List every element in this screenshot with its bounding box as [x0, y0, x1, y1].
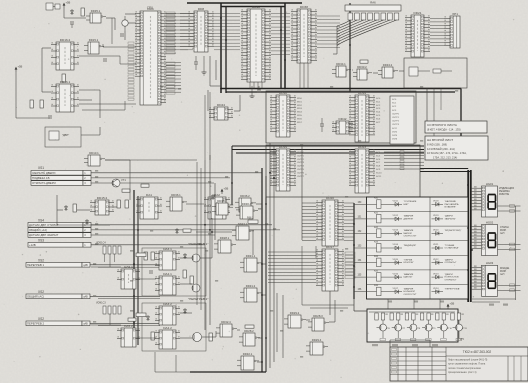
svg-text:+5B: +5B	[450, 302, 455, 306]
svg-text:СЧТР2: СЧТР2	[392, 121, 400, 123]
bus feed into right vertical	[420, 168, 468, 170]
diode VD9	[183, 253, 186, 259]
opto VT circle 2	[192, 284, 200, 292]
svg-text:ХS1: ХS1	[38, 166, 44, 170]
svg-text:SC/2: SC/2	[392, 128, 398, 130]
svg-text:Лифт пассажирский (серия 0401-: Лифт пассажирский (серия 0401-П)	[448, 359, 488, 362]
svg-text:DD20: DD20	[326, 196, 334, 200]
wires DD11 bottom stubs	[250, 82, 262, 89]
svg-text:1КЛ4: 1КЛ4	[392, 135, 398, 137]
svg-text:1КЛ2: 1КЛ2	[392, 131, 398, 133]
resistor R26	[183, 229, 191, 232]
crystal oscillator ZQ1	[122, 16, 128, 31]
LED VD22	[432, 259, 444, 265]
svg-text:"ДВЕРИ: "ДВЕРИ	[445, 274, 454, 276]
bus vertical mid bottom pair	[261, 168, 263, 372]
flip-flop DD16.1	[51, 80, 79, 112]
wire dd20 feed vertical	[301, 146, 303, 240]
LED VD23	[432, 273, 444, 279]
svg-text:DD19: DD19	[358, 91, 366, 95]
wire dd17 area to matrix bus	[302, 304, 354, 306]
connector XS1 row 2	[31, 176, 91, 181]
array resistor R36	[451, 313, 464, 320]
svg-text:DA4.2: DA4.2	[163, 326, 172, 330]
svg-text:+12В: +12В	[29, 243, 36, 247]
indicator matrix row line 1	[367, 211, 469, 213]
label for VD19	[445, 216, 457, 221]
array transistor VT10	[437, 320, 452, 338]
svg-text:DD38: DD38	[300, 5, 308, 9]
wire dd15 to cpu	[103, 46, 136, 48]
resistor R4	[141, 184, 149, 187]
svg-text:WD1: WD1	[297, 101, 303, 103]
bus vertical x354 to matrix	[353, 203, 355, 299]
indicator matrix column divider	[429, 197, 431, 299]
svg-text:8 IND (158...168): 8 IND (158...168)	[427, 143, 447, 147]
svg-text:+5B: +5B	[66, 1, 71, 5]
DD10 output labels WD0-WD7	[297, 98, 303, 124]
svg-text:МАЛОЙ: МАЛОЙ	[404, 232, 412, 235]
optocoupler DA1	[136, 193, 162, 219]
CPU left tag boxes	[128, 42, 134, 100]
svg-text:DD23: DD23	[358, 145, 366, 149]
svg-text:DD21: DD21	[414, 11, 422, 15]
svg-text:пульт управления лифтом. Плата: пульт управления лифтом. Плата	[448, 363, 486, 366]
svg-text:DA4.1: DA4.1	[163, 272, 172, 276]
DD17 right tag boxes	[345, 252, 355, 278]
IC DD14	[270, 145, 296, 191]
IC DD20	[316, 196, 344, 246]
CPU right label boxes	[166, 14, 176, 54]
svg-text:"УСИЛЕНИЕ: "УСИЛЕНИЕ	[404, 201, 417, 203]
capacitor C2	[120, 34, 124, 36]
svg-text:DD17: DD17	[326, 245, 334, 249]
svg-text:DA5.1: DA5.1	[124, 265, 133, 269]
svg-text:ПЕРЕГРЕВ 2: ПЕРЕГРЕВ 2	[27, 322, 44, 326]
array resistor R34	[420, 313, 433, 320]
label for VD14	[404, 245, 417, 247]
DD19 output labels	[376, 98, 381, 124]
gate DD38.2	[212, 199, 233, 215]
array top rail	[369, 311, 455, 313]
gate DD28.3	[308, 314, 329, 331]
svg-text:ДВЕРЕЙ": ДВЕРЕЙ"	[404, 217, 414, 220]
gate DD35.1	[86, 9, 106, 23]
capacitor C16	[104, 58, 106, 62]
zone DVP box	[45, 127, 81, 147]
capacitor C1	[70, 22, 74, 28]
wire 7seg bottom horizontals	[472, 298, 516, 300]
row 4 feed resistor R43	[354, 241, 381, 252]
LED VD16	[381, 273, 402, 279]
wire dd17 to bottom gates	[329, 291, 331, 315]
row 7 feed resistor R46	[354, 285, 381, 296]
diode VD3	[70, 9, 73, 15]
label HG2	[500, 226, 509, 235]
bus wire vertical pair right of DD11	[280, 7, 282, 89]
LED VD21	[432, 244, 444, 250]
indicator matrix box	[367, 197, 469, 299]
svg-text:DD28.1: DD28.1	[220, 236, 230, 240]
array resistor R35	[436, 313, 449, 320]
svg-text:1КЛ6: 1КЛ6	[392, 139, 398, 141]
gate DD31.1	[240, 254, 262, 272]
svg-text:DA3.2: DA3.2	[163, 302, 172, 306]
wire dd8 lower area	[209, 56, 211, 86]
wire array top left	[354, 310, 367, 312]
svg-text:"ПЕРЕГРЕВ 2": "ПЕРЕГРЕВ 2"	[188, 297, 208, 301]
resistor row under RA6	[348, 13, 399, 20]
wire below dd17 verticals	[276, 293, 278, 352]
note box from sheet 2	[425, 121, 487, 133]
peregrev1 section outline	[142, 248, 206, 296]
wires DD23 to sheet2 box	[384, 151, 424, 170]
svg-text:XP1: XP1	[452, 12, 458, 16]
svg-text:DD11: DD11	[252, 5, 260, 9]
svg-text:№П: №П	[500, 232, 505, 235]
svg-text:VD19: VD19	[433, 215, 439, 217]
array resistor R32	[390, 313, 403, 320]
optocoupler VT circle 1	[192, 254, 200, 262]
svg-text:VT10: VT10	[447, 328, 453, 330]
label for VD16	[404, 273, 414, 279]
wire cpu to dd8 bus	[166, 14, 193, 50]
LED VD18	[432, 201, 444, 207]
wire bottom gates	[237, 329, 240, 331]
svg-text:ПОДВЕКА 1В: ПОДВЕКА 1В	[32, 176, 50, 180]
svg-text:DD15.1: DD15.1	[89, 38, 99, 42]
row 6 feed resistor R45	[354, 271, 381, 282]
array +5V	[447, 302, 455, 310]
gate DD13.1	[84, 151, 105, 166]
comparator DA3.1	[155, 247, 180, 270]
array bottom tag 3	[410, 339, 416, 341]
svg-text:СЧТР2: СЧТР2	[297, 159, 305, 161]
svg-text:VD24: VD24	[433, 288, 439, 290]
svg-text:"АВАРИЯ: "АВАРИЯ	[404, 288, 414, 291]
row 5 feed resistor R44	[354, 256, 381, 267]
svg-text:VD20: VD20	[433, 230, 439, 232]
label for VD15	[404, 259, 414, 264]
svg-text:ПЕРЕГРЕВ 1: ПЕРЕГРЕВ 1	[27, 263, 44, 267]
label for VD20	[445, 229, 462, 232]
label for VD23	[445, 274, 460, 281]
svg-text:DD28.2: DD28.2	[244, 329, 254, 333]
svg-text:DD10: DD10	[279, 91, 287, 95]
svg-text:принципиальная. (лист 1): принципиальная. (лист 1)	[448, 371, 477, 374]
wire fan vertical	[336, 26, 338, 54]
svg-text:ШУНТОВ": ШУНТОВ"	[404, 262, 414, 264]
svg-text:В КАБИНЕ": В КАБИНЕ"	[445, 206, 457, 209]
svg-text:DD32.4: DD32.4	[221, 320, 231, 324]
bus wires to sheet-2 box	[232, 145, 424, 147]
label HG3	[500, 267, 510, 276]
array transistor VT7	[392, 320, 406, 338]
7seg module HG3	[471, 261, 521, 296]
svg-text:"АВАРИЯ: "АВАРИЯ	[404, 229, 414, 232]
7seg bottom tags	[489, 304, 508, 306]
svg-text:СЧТР1: СЧТР1	[392, 117, 400, 119]
wire left vertical	[15, 72, 17, 118]
wire opto row	[186, 203, 204, 205]
comparator DA4.1	[155, 272, 180, 295]
LED VD19	[432, 215, 444, 221]
bus wire top horizontal 2	[221, 6, 285, 8]
box around gates group	[404, 58, 467, 88]
resistor R25	[125, 200, 128, 208]
resistor R39	[190, 276, 193, 284]
array bottom tag 2	[395, 339, 401, 341]
svg-text:СЧТР3: СЧТР3	[297, 162, 305, 164]
gate DD32.4	[216, 320, 237, 337]
wires XS3 right	[91, 244, 205, 246]
svg-text:"ОБРЫВ: "ОБРЫВ	[404, 259, 413, 261]
array resistor R31	[375, 313, 388, 320]
resistor network RA6	[345, 1, 401, 11]
svg-text:DD29.4: DD29.4	[312, 338, 322, 342]
svg-text:СКОРОСТИ": СКОРОСТИ"	[404, 236, 417, 238]
DD14 output labels	[297, 152, 305, 178]
title block table	[390, 347, 528, 381]
svg-text:СЧТР6: СЧТР6	[297, 172, 305, 174]
diode VD40	[85, 219, 88, 225]
svg-text:VD12: VD12	[393, 215, 399, 217]
title block upper tab	[390, 340, 430, 347]
row 3 feed resistor R42	[354, 227, 381, 238]
svg-text:НВР": НВР"	[404, 204, 409, 206]
array bottom tag 5	[441, 339, 447, 341]
wire zone dvp	[81, 134, 100, 136]
IC DD21	[405, 11, 430, 57]
resistor R38	[183, 270, 186, 278]
LED VD15	[381, 259, 402, 265]
CPU lower right hatch	[166, 63, 181, 93]
wire peregrev1	[180, 257, 192, 259]
crystal G1 top corner	[46, 3, 60, 10]
diode VD8	[175, 228, 178, 234]
svg-text:НА ВТОРОЙ ЛИСТ: НА ВТОРОЙ ЛИСТ	[427, 138, 453, 142]
gate DD37.1	[232, 222, 254, 240]
IC DD11 ROM	[241, 5, 271, 82]
opto VT circle 3	[193, 333, 202, 342]
wire filter cluster 2	[91, 324, 121, 326]
svg-text:175А, 212, 213, 214): 175А, 212, 213, 214)	[433, 155, 457, 159]
resistor R28.4	[245, 325, 254, 328]
svg-text:WD5: WD5	[297, 115, 303, 117]
transistor VT1	[112, 178, 126, 187]
svg-text:DD34.1: DD34.1	[336, 62, 346, 66]
svg-text:DD16.2: DD16.2	[60, 38, 71, 42]
IC DD19	[349, 91, 375, 142]
svg-text:ШАХТЫ": ШАХТЫ"	[404, 276, 413, 279]
svg-text:ОБЩИЙ (AC): ОБЩИЙ (AC)	[27, 295, 44, 299]
svg-text:ПОЛНОСТЬЮ: ПОЛНОСТЬЮ	[445, 277, 460, 279]
wire analog area	[57, 209, 63, 211]
svg-text:"АВАРИЯ: "АВАРИЯ	[404, 273, 414, 276]
svg-text:DD14: DD14	[279, 145, 287, 149]
svg-text:DA5.2: DA5.2	[124, 324, 133, 328]
wires XS4 to right	[91, 224, 272, 226]
label for VD22	[445, 259, 457, 264]
connector XS2a row	[26, 263, 90, 268]
svg-text:VD16: VD16	[393, 273, 399, 275]
wires XS1 to right	[91, 172, 262, 174]
svg-text:DD33.2: DD33.2	[357, 65, 367, 69]
label for VD17	[404, 288, 417, 296]
svg-text:+5B: +5B	[224, 187, 229, 191]
resistor R30	[360, 60, 368, 63]
resistor R3	[81, 8, 84, 16]
wire dd20 dd17 right hatch	[344, 203, 354, 240]
wire filter cluster 1	[91, 266, 121, 268]
svg-text:DD32.1: DD32.1	[243, 352, 253, 356]
svg-text:VD11: VD11	[393, 201, 399, 203]
matrix bottom tags	[388, 301, 444, 303]
gate DD29.2	[284, 311, 306, 328]
wire XS2a	[90, 264, 160, 266]
wires gates box to notes	[426, 89, 428, 122]
svg-text:RA6: RA6	[370, 1, 376, 5]
group box DD14 DD23	[266, 145, 420, 197]
array bottom tag 6	[456, 339, 462, 341]
ground under DD11	[250, 86, 255, 98]
wire XS2b	[90, 295, 160, 297]
bus wire vertical x350	[349, 3, 351, 92]
array resistor R33	[405, 313, 418, 320]
svg-text:ОБЩИЙ (+12): ОБЩИЙ (+12)	[29, 228, 47, 232]
svg-text:ОСТАНОВКА": ОСТАНОВКА"	[445, 247, 459, 250]
svg-text:VD23: VD23	[433, 273, 439, 275]
svg-text:VD18: VD18	[433, 201, 439, 203]
bus wire horizontal mid 2	[226, 91, 455, 93]
bus wire vertical right x461	[427, 89, 461, 144]
svg-text:ТЮ2 и 487.263-002: ТЮ2 и 487.263-002	[463, 350, 492, 354]
IC DD38 RAM	[291, 5, 317, 63]
resistor R200	[209, 333, 212, 341]
bus wire bottom from gates	[231, 146, 233, 205]
capacitor C7 under DD11	[257, 86, 261, 92]
capacitor C9	[320, 118, 324, 132]
connector XS4 row 2	[28, 228, 91, 233]
tiny reference tags	[93, 86, 458, 358]
wire verticals from dd8 region down	[204, 95, 206, 160]
gate DD36.2	[235, 194, 256, 212]
wire fan from resistor row	[337, 20, 397, 46]
svg-text:HG03: HG03	[486, 261, 494, 265]
label for VD18	[445, 200, 459, 208]
LED VD24	[432, 288, 444, 294]
svg-text:DD36.1: DD36.1	[171, 193, 181, 197]
svg-text:СЧТР7: СЧТР7	[297, 176, 305, 178]
diode VD4	[64, 205, 67, 211]
svg-text:+5B: +5B	[18, 65, 23, 69]
small IC DD42 below DD38	[332, 117, 353, 134]
label for VD24	[445, 288, 461, 291]
svg-text:ОТКРЫТЬ ДВЕРИ: ОТКРЫТЬ ДВЕРИ	[32, 181, 56, 185]
IC DD10	[270, 91, 296, 137]
resistor R7	[62, 74, 65, 82]
svg-text:DD34.2: DD34.2	[383, 63, 393, 67]
resistor R5	[73, 204, 76, 212]
wire dd16 to cpu runs	[79, 103, 136, 105]
svg-text:HG02: HG02	[486, 220, 494, 224]
optocoupler DA5.2	[117, 324, 140, 347]
IC DD44	[209, 103, 233, 120]
svg-text:"ВР(ЗАГРУЗКИ)": "ВР(ЗАГРУЗКИ)"	[445, 229, 462, 232]
bus wire top horizontal	[187, 2, 302, 4]
CPU DD4	[135, 7, 166, 105]
input filter cluster VD90 C3	[96, 302, 121, 315]
comparator DA4.2	[155, 326, 180, 349]
svg-text:"ДВП": "ДВП"	[62, 133, 69, 137]
flip-flop DD16.2	[51, 38, 79, 70]
svg-text:VT11: VT11	[462, 328, 468, 330]
svg-text:DD38.2: DD38.2	[217, 199, 227, 203]
optocoupler DA2	[204, 193, 230, 219]
gate DD33.2	[353, 65, 372, 80]
bus wire right double vertical	[467, 170, 469, 302]
connector XS1 row 3	[31, 181, 91, 186]
svg-text:R68.1: R68.1	[247, 217, 254, 220]
svg-text:DD37.1: DD37.1	[238, 222, 248, 226]
svg-text:WD2: WD2	[297, 105, 303, 107]
svg-text:WD0: WD0	[297, 98, 303, 100]
gate DD30.4	[236, 202, 258, 219]
svg-text:"АВАРИЯ: "АВАРИЯ	[404, 215, 414, 218]
svg-text:№П: №П	[500, 273, 505, 276]
connector XS2b row	[26, 294, 90, 299]
svg-text:ц4В: ц4В	[83, 296, 88, 299]
gate DD28.2	[239, 329, 260, 346]
diode VD40b	[211, 194, 214, 200]
LED VD20	[432, 230, 444, 236]
wire power-on	[63, 8, 65, 18]
label for VD11	[404, 201, 417, 206]
LED VD17	[381, 288, 402, 294]
wire dd16 join	[42, 47, 51, 49]
wire dd16.1 outputs	[79, 89, 100, 91]
wire extra verticals near x200	[196, 162, 198, 305]
array transistor VT9	[422, 320, 436, 338]
group box DD10 DD19	[266, 91, 416, 143]
wire XS2c	[90, 322, 160, 324]
wire misc mid	[129, 172, 131, 200]
wire peregrev2	[180, 312, 192, 314]
wire dd31 col	[252, 230, 254, 255]
component inside gates box	[409, 67, 452, 76]
svg-text:SC10: SC10	[376, 172, 382, 174]
svg-text:(8 КЕТ, 4 ВХОДА - 114...135): (8 КЕТ, 4 ВХОДА - 114...135)	[427, 128, 461, 132]
note box to sheet 2	[425, 136, 488, 160]
svg-text:DD13.1: DD13.1	[89, 151, 99, 155]
svg-text:"МЕДИЦИЯ": "МЕДИЦИЯ"	[404, 245, 417, 247]
svg-text:DD36.2: DD36.2	[240, 194, 250, 198]
svg-text:"ПЕРЕГРУЗКА": "ПЕРЕГРУЗКА"	[445, 288, 461, 291]
array below tags	[372, 344, 438, 346]
svg-text:ХS3: ХS3	[38, 239, 44, 243]
row 1 feed resistor R40	[354, 198, 381, 209]
wire matrix to array verticals	[387, 299, 389, 309]
svg-text:СЧТР0: СЧТР0	[392, 113, 400, 115]
connector XS4 row 3	[28, 233, 91, 238]
svg-text:ПАССАЖИРА: ПАССАЖИРА	[445, 203, 459, 206]
svg-text:VD21: VD21	[433, 244, 439, 246]
resistor R29	[151, 332, 154, 340]
label for VD13	[404, 229, 417, 237]
svg-text:СКОРОСТИ": СКОРОСТИ"	[404, 294, 417, 296]
svg-text:VD15: VD15	[393, 259, 399, 261]
array transistor VT8	[407, 320, 421, 338]
